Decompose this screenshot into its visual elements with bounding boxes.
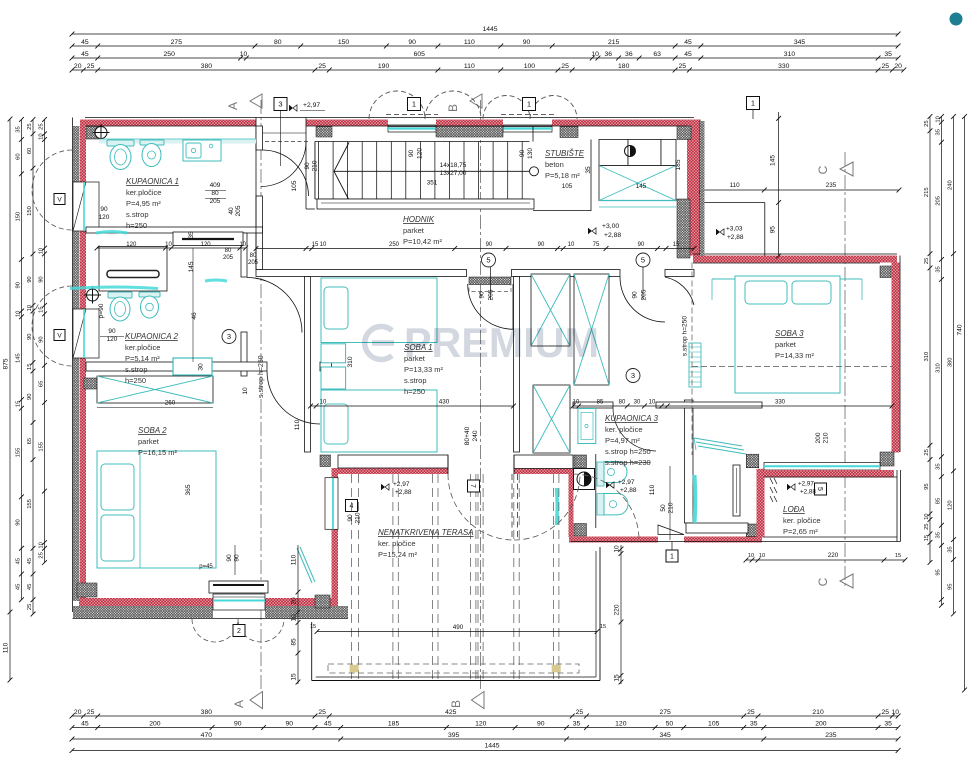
svg-text:45: 45 <box>16 584 22 590</box>
svg-text:h=250: h=250 <box>126 221 147 230</box>
svg-text:25: 25 <box>924 449 930 455</box>
svg-text:90: 90 <box>39 336 45 342</box>
svg-text:90: 90 <box>285 721 293 728</box>
svg-text:35: 35 <box>936 129 942 135</box>
svg-text:45: 45 <box>684 39 692 46</box>
svg-text:ker. pločice: ker. pločice <box>605 425 643 434</box>
svg-text:10: 10 <box>240 51 248 58</box>
svg-text:205: 205 <box>248 260 259 266</box>
svg-text:250: 250 <box>389 242 400 248</box>
svg-text:200: 200 <box>815 721 827 728</box>
svg-text:330: 330 <box>775 400 786 406</box>
svg-text:10: 10 <box>891 709 899 716</box>
svg-text:90: 90 <box>27 276 33 282</box>
svg-text:STUBIŠTE: STUBIŠTE <box>545 149 585 158</box>
svg-text:145: 145 <box>770 155 777 166</box>
svg-text:15: 15 <box>895 553 901 559</box>
svg-text:P=4,97 m²: P=4,97 m² <box>605 436 640 445</box>
svg-text:310: 310 <box>924 352 930 362</box>
svg-text:220: 220 <box>614 604 621 615</box>
svg-text:KUPAONICA 3: KUPAONICA 3 <box>605 414 658 423</box>
svg-text:10: 10 <box>320 242 327 248</box>
svg-text:200: 200 <box>149 721 161 728</box>
svg-text:120: 120 <box>417 148 424 159</box>
svg-text:345: 345 <box>794 39 806 46</box>
svg-text:10: 10 <box>165 242 172 248</box>
svg-text:90: 90 <box>486 242 493 248</box>
svg-text:80: 80 <box>250 253 257 259</box>
svg-text:parket: parket <box>138 437 160 446</box>
svg-text:25: 25 <box>27 604 33 610</box>
svg-text:90: 90 <box>16 519 22 525</box>
svg-text:+2,88: +2,88 <box>604 232 621 239</box>
svg-text:210: 210 <box>812 709 824 716</box>
svg-text:120: 120 <box>107 336 118 343</box>
svg-text:10: 10 <box>649 400 656 406</box>
svg-text:80: 80 <box>225 248 232 254</box>
svg-text:425: 425 <box>445 709 457 716</box>
svg-text:490: 490 <box>453 624 464 631</box>
svg-text:35: 35 <box>585 166 592 174</box>
svg-text:15: 15 <box>600 624 606 630</box>
svg-text:85: 85 <box>291 638 298 646</box>
svg-text:25: 25 <box>924 523 930 529</box>
svg-text:30: 30 <box>198 363 205 371</box>
svg-text:740: 740 <box>957 324 964 335</box>
svg-text:200: 200 <box>815 432 822 443</box>
svg-text:260: 260 <box>165 400 176 407</box>
svg-text:10: 10 <box>924 513 930 519</box>
svg-text:HODNIK: HODNIK <box>403 215 435 224</box>
svg-text:65: 65 <box>27 438 33 444</box>
svg-text:10: 10 <box>614 545 621 553</box>
svg-text:20: 20 <box>291 597 298 605</box>
svg-text:80: 80 <box>211 190 219 197</box>
svg-text:25: 25 <box>318 709 326 716</box>
svg-text:25: 25 <box>318 63 326 70</box>
svg-text:10: 10 <box>748 553 754 559</box>
svg-text:1445: 1445 <box>482 26 497 33</box>
svg-text:90: 90 <box>304 162 311 170</box>
svg-text:35: 35 <box>884 51 892 58</box>
svg-text:30: 30 <box>634 400 641 406</box>
svg-text:10: 10 <box>239 242 246 248</box>
svg-text:63: 63 <box>653 51 661 58</box>
svg-text:NENATKRIVENA TERASA: NENATKRIVENA TERASA <box>378 528 474 537</box>
svg-text:15: 15 <box>27 364 33 370</box>
svg-text:90: 90 <box>523 39 531 46</box>
svg-text:470: 470 <box>201 732 213 739</box>
svg-text:+2,88: +2,88 <box>620 487 637 494</box>
svg-text:15: 15 <box>673 242 680 248</box>
svg-text:s.strop h=230: s.strop h=230 <box>605 458 651 467</box>
svg-text:1: 1 <box>527 100 531 109</box>
svg-text:25: 25 <box>39 123 45 129</box>
svg-text:155: 155 <box>27 499 33 509</box>
svg-text:45: 45 <box>324 721 332 728</box>
svg-text:75: 75 <box>593 242 600 248</box>
svg-text:35: 35 <box>16 126 22 132</box>
svg-text:310: 310 <box>347 356 354 367</box>
svg-text:LOĐA: LOĐA <box>783 505 805 514</box>
svg-text:100: 100 <box>524 63 536 70</box>
svg-text:SOBA 3: SOBA 3 <box>775 329 804 338</box>
svg-text:h=250: h=250 <box>404 387 425 396</box>
svg-text:90: 90 <box>108 328 116 335</box>
svg-text:+2,97: +2,97 <box>393 481 410 488</box>
svg-text:110: 110 <box>294 419 301 430</box>
svg-text:A: A <box>232 700 246 708</box>
svg-text:+3,03: +3,03 <box>726 226 743 233</box>
svg-text:+2,97: +2,97 <box>618 479 635 486</box>
svg-text:parket: parket <box>403 226 425 235</box>
svg-text:25: 25 <box>87 709 95 716</box>
svg-text:P=5,14 m²: P=5,14 m² <box>125 354 160 363</box>
svg-text:90: 90 <box>347 514 354 522</box>
svg-text:35: 35 <box>573 721 581 728</box>
svg-text:s.strop h=250: s.strop h=250 <box>258 355 265 398</box>
svg-text:90: 90 <box>408 39 416 46</box>
svg-text:36: 36 <box>604 51 612 58</box>
svg-text:10: 10 <box>320 400 327 406</box>
svg-text:B: B <box>449 700 463 708</box>
svg-text:+2,88: +2,88 <box>727 234 744 241</box>
svg-text:185: 185 <box>675 159 682 170</box>
svg-text:V: V <box>57 197 62 204</box>
svg-text:15: 15 <box>614 674 621 682</box>
svg-text:310: 310 <box>784 51 796 58</box>
svg-text:150: 150 <box>338 39 350 46</box>
svg-text:90: 90 <box>27 334 33 340</box>
svg-text:365: 365 <box>185 484 192 495</box>
svg-text:3: 3 <box>631 371 635 380</box>
svg-text:B: B <box>446 104 460 112</box>
svg-text:15: 15 <box>924 535 930 541</box>
svg-text:380: 380 <box>201 63 213 70</box>
svg-text:215: 215 <box>608 39 620 46</box>
svg-text:A: A <box>226 102 240 110</box>
svg-text:110: 110 <box>730 182 741 189</box>
svg-text:120: 120 <box>615 721 627 728</box>
svg-text:+2,88: +2,88 <box>800 489 816 496</box>
svg-text:60: 60 <box>16 153 22 159</box>
svg-text:20: 20 <box>74 63 82 70</box>
svg-text:110: 110 <box>291 554 298 565</box>
svg-text:s.strop: s.strop <box>125 365 148 374</box>
svg-text:120: 120 <box>99 214 110 221</box>
svg-text:36: 36 <box>625 51 633 58</box>
svg-text:395: 395 <box>448 732 460 739</box>
svg-text:95: 95 <box>948 583 954 589</box>
svg-text:25: 25 <box>576 709 584 716</box>
svg-text:210: 210 <box>355 512 362 523</box>
svg-text:3: 3 <box>227 332 231 341</box>
svg-text:s.strop h=250: s.strop h=250 <box>682 316 689 356</box>
svg-text:605: 605 <box>414 51 426 58</box>
svg-text:35: 35 <box>884 721 892 728</box>
svg-text:145: 145 <box>636 183 647 190</box>
svg-text:25: 25 <box>87 63 95 70</box>
svg-text:105: 105 <box>291 180 298 191</box>
svg-text:90: 90 <box>234 721 242 728</box>
svg-text:90: 90 <box>226 554 233 562</box>
svg-text:45: 45 <box>27 584 33 590</box>
svg-text:25: 25 <box>27 123 33 129</box>
svg-text:240: 240 <box>472 430 479 441</box>
svg-text:40: 40 <box>228 207 235 215</box>
svg-text:P=13,33 m²: P=13,33 m² <box>404 365 443 374</box>
svg-text:10: 10 <box>27 305 33 311</box>
svg-text:205: 205 <box>488 289 495 300</box>
svg-text:90: 90 <box>39 276 45 282</box>
svg-text:KUPAONICA 1: KUPAONICA 1 <box>126 177 179 186</box>
svg-text:90: 90 <box>479 291 486 299</box>
svg-text:10: 10 <box>573 400 580 406</box>
svg-text:5: 5 <box>486 256 490 265</box>
svg-text:95: 95 <box>936 569 942 575</box>
svg-text:35: 35 <box>936 463 942 469</box>
svg-text:85: 85 <box>597 400 604 406</box>
svg-text:35: 35 <box>936 266 942 272</box>
svg-text:10: 10 <box>39 542 45 548</box>
svg-text:220: 220 <box>828 552 839 559</box>
svg-text:1: 1 <box>412 100 416 109</box>
svg-text:1: 1 <box>751 99 755 108</box>
svg-text:35: 35 <box>188 231 195 239</box>
svg-text:155: 155 <box>16 448 22 458</box>
svg-text:50: 50 <box>660 504 667 512</box>
svg-text:35: 35 <box>936 532 942 538</box>
svg-text:45: 45 <box>81 51 89 58</box>
svg-text:105: 105 <box>562 183 573 190</box>
svg-text:60: 60 <box>27 148 33 154</box>
svg-text:205: 205 <box>223 255 234 261</box>
svg-text:120: 120 <box>126 242 137 248</box>
svg-text:351: 351 <box>427 180 438 187</box>
svg-text:10: 10 <box>39 248 45 254</box>
svg-text:145: 145 <box>188 261 195 272</box>
svg-text:10: 10 <box>759 553 765 559</box>
svg-text:120: 120 <box>201 242 212 248</box>
svg-text:5: 5 <box>816 487 823 491</box>
svg-text:+2,97: +2,97 <box>303 102 320 109</box>
svg-text:50: 50 <box>666 721 674 728</box>
svg-text:10: 10 <box>39 133 45 139</box>
svg-text:210: 210 <box>823 432 830 443</box>
svg-text:275: 275 <box>659 709 671 716</box>
svg-text:p=90: p=90 <box>98 303 105 318</box>
svg-text:1: 1 <box>670 554 674 561</box>
svg-text:409: 409 <box>210 182 221 189</box>
svg-text:+2,97: +2,97 <box>798 481 814 488</box>
svg-text:65: 65 <box>39 381 45 387</box>
svg-text:+2,88: +2,88 <box>395 489 412 496</box>
svg-text:150: 150 <box>16 212 22 222</box>
svg-text:235: 235 <box>825 732 837 739</box>
svg-text:155: 155 <box>39 442 45 452</box>
svg-text:275: 275 <box>171 39 183 46</box>
svg-text:105: 105 <box>708 721 720 728</box>
svg-text:185: 185 <box>388 721 400 728</box>
svg-text:35: 35 <box>750 721 758 728</box>
svg-text:90: 90 <box>100 206 108 213</box>
svg-text:145: 145 <box>16 353 22 363</box>
svg-text:250: 250 <box>164 51 176 58</box>
svg-text:85: 85 <box>936 498 942 504</box>
svg-text:90: 90 <box>27 394 33 400</box>
svg-text:35: 35 <box>948 546 954 552</box>
svg-text:25: 25 <box>881 63 889 70</box>
svg-text:150: 150 <box>27 206 33 216</box>
svg-text:380: 380 <box>201 709 213 716</box>
svg-text:110: 110 <box>3 642 10 653</box>
svg-text:210: 210 <box>668 502 675 513</box>
svg-text:130: 130 <box>527 148 534 159</box>
svg-text:KUPAONICA 2: KUPAONICA 2 <box>125 332 178 341</box>
svg-text:95: 95 <box>924 483 930 489</box>
svg-text:215: 215 <box>924 187 930 197</box>
svg-text:110: 110 <box>649 484 656 495</box>
svg-text:205: 205 <box>210 198 221 205</box>
svg-text:P=14,33 m²: P=14,33 m² <box>775 351 814 360</box>
svg-text:90: 90 <box>632 291 639 299</box>
svg-text:90: 90 <box>519 150 526 158</box>
svg-text:875: 875 <box>3 358 10 369</box>
svg-text:80: 80 <box>619 400 626 406</box>
svg-text:10: 10 <box>291 614 298 622</box>
svg-text:205: 205 <box>641 289 648 300</box>
svg-text:45: 45 <box>27 558 33 564</box>
svg-text:h=250: h=250 <box>125 376 146 385</box>
svg-text:25: 25 <box>561 63 569 70</box>
svg-text:90: 90 <box>537 721 545 728</box>
svg-text:15: 15 <box>39 306 45 312</box>
svg-text:45: 45 <box>81 39 89 46</box>
svg-text:1445: 1445 <box>484 743 499 750</box>
svg-text:SOBA 2: SOBA 2 <box>138 426 167 435</box>
svg-text:205: 205 <box>235 205 242 216</box>
svg-text:90: 90 <box>538 242 545 248</box>
svg-text:P=4,95 m²: P=4,95 m² <box>126 199 161 208</box>
svg-text:25: 25 <box>924 258 930 264</box>
svg-text:330: 330 <box>778 63 790 70</box>
svg-text:180: 180 <box>618 63 630 70</box>
svg-text:110: 110 <box>464 63 475 70</box>
svg-text:P=15,24 m²: P=15,24 m² <box>378 550 417 559</box>
svg-text:110: 110 <box>464 39 475 46</box>
svg-text:210: 210 <box>312 160 319 171</box>
svg-text:beton: beton <box>545 160 564 169</box>
svg-text:13x27,00: 13x27,00 <box>440 170 467 177</box>
svg-text:80: 80 <box>274 39 282 46</box>
svg-text:240: 240 <box>948 180 954 190</box>
svg-text:7: 7 <box>469 484 476 488</box>
svg-text:25: 25 <box>39 552 45 558</box>
svg-text:parket: parket <box>775 340 797 349</box>
svg-text:345: 345 <box>659 732 671 739</box>
svg-text:s.strop h=250: s.strop h=250 <box>605 447 651 456</box>
svg-text:190: 190 <box>378 63 390 70</box>
svg-text:25: 25 <box>747 709 755 716</box>
svg-text:90: 90 <box>234 554 241 562</box>
svg-text:205: 205 <box>936 196 942 206</box>
svg-text:ker.pločice: ker.pločice <box>126 188 161 197</box>
svg-text:P=10,42 m²: P=10,42 m² <box>403 237 442 246</box>
svg-text:10: 10 <box>936 116 942 122</box>
svg-text:P=16,15 m²: P=16,15 m² <box>138 448 177 457</box>
svg-text:10: 10 <box>591 51 599 58</box>
svg-text:25: 25 <box>881 709 889 716</box>
svg-text:120: 120 <box>948 500 954 510</box>
svg-text:P=2,65 m²: P=2,65 m² <box>783 527 818 536</box>
svg-text:310: 310 <box>936 363 942 373</box>
svg-text:90: 90 <box>638 242 645 248</box>
svg-text:20: 20 <box>74 709 82 716</box>
svg-text:2: 2 <box>237 628 241 635</box>
svg-text:5: 5 <box>641 256 645 265</box>
svg-text:ker.pločice: ker.pločice <box>125 343 160 352</box>
svg-text:90: 90 <box>408 150 415 158</box>
svg-text:V: V <box>57 333 62 340</box>
svg-text:45: 45 <box>81 721 89 728</box>
svg-text:+3,00: +3,00 <box>602 223 619 230</box>
svg-text:C: C <box>816 165 830 174</box>
svg-text:95: 95 <box>770 226 777 234</box>
svg-text:46: 46 <box>191 312 198 320</box>
svg-text:120: 120 <box>475 721 487 728</box>
svg-text:10: 10 <box>242 387 249 395</box>
svg-text:C: C <box>816 577 830 586</box>
svg-text:15: 15 <box>312 242 319 248</box>
svg-text:s.strop: s.strop <box>404 376 427 385</box>
svg-text:ker. pločice: ker. pločice <box>378 539 416 548</box>
svg-text:10: 10 <box>16 311 22 317</box>
svg-text:80+40: 80+40 <box>464 426 471 445</box>
svg-text:45: 45 <box>16 558 22 564</box>
svg-text:380: 380 <box>948 357 954 367</box>
svg-text:20: 20 <box>894 63 902 70</box>
svg-text:10: 10 <box>568 242 575 248</box>
svg-text:90: 90 <box>16 282 22 288</box>
svg-text:25: 25 <box>679 63 687 70</box>
svg-text:15: 15 <box>310 624 316 630</box>
svg-text:P=5,18 m²: P=5,18 m² <box>545 171 580 180</box>
svg-text:3: 3 <box>278 100 282 109</box>
svg-text:15: 15 <box>291 673 298 681</box>
svg-text:45: 45 <box>684 51 692 58</box>
svg-text:PREMIUM: PREMIUM <box>404 319 599 366</box>
svg-text:430: 430 <box>439 399 450 406</box>
svg-text:14x18,75: 14x18,75 <box>440 162 467 169</box>
svg-text:s.strop: s.strop <box>126 210 149 219</box>
svg-text:25: 25 <box>924 120 930 126</box>
svg-text:15: 15 <box>16 401 22 407</box>
svg-text:ker. pločice: ker. pločice <box>783 516 821 525</box>
svg-text:235: 235 <box>826 182 837 189</box>
svg-text:p=45: p=45 <box>199 564 213 570</box>
